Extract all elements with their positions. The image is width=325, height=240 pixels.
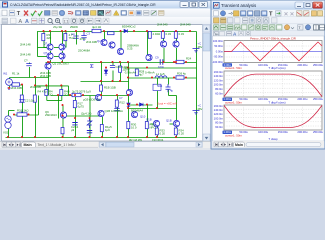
wire right rail — [196, 32, 198, 138]
toolbar row 2 — [0, 17, 211, 25]
svg-text:100.00m: 100.00m — [213, 39, 223, 43]
wire rail C — [129, 77, 197, 79]
wire source VF1 stem — [9, 78, 11, 80]
wire R10 stubs — [46, 86, 48, 90]
plot3 valley waveform — [224, 105, 322, 127]
svg-text:R12: R12 — [120, 101, 126, 105]
svg-text:Transient analysis: Transient analysis — [221, 3, 257, 8]
svg-text:Uout = +0C mV: Uout = +0C mV — [157, 101, 177, 105]
transistor Q8 — [117, 48, 123, 54]
resistor R23 — [119, 66, 122, 72]
wire branch x150 — [150, 32, 152, 34]
capacitor C10 — [166, 84, 171, 92]
resistor R17 — [73, 101, 76, 108]
wire pot row — [15, 114, 39, 116]
capacitor C3 — [81, 31, 86, 41]
transistor Q13 — [60, 112, 66, 118]
svg-text:25ΩW: 25ΩW — [70, 25, 78, 29]
svg-text:cursor1: 50m: cursor1: 50m — [225, 134, 242, 138]
potentiometer P1 — [17, 113, 27, 116]
resistor R11 — [60, 90, 63, 96]
trans window buttons — [295, 2, 304, 8]
svg-text:2N4.04B: 2N4.04B — [30, 85, 41, 89]
svg-text:0.33: 0.33 — [179, 32, 185, 36]
svg-text:+C: +C — [198, 42, 202, 46]
resistor R10 — [45, 90, 48, 96]
wire VG1 column — [8, 111, 10, 117]
svg-text:60.0m: 60.0m — [215, 125, 223, 129]
resistor R34 — [174, 128, 177, 135]
svg-text:R26 4μ: R26 4μ — [177, 72, 186, 76]
resistor R9 horizontal — [72, 93, 81, 96]
svg-text:200.00u: 200.00u — [297, 130, 308, 134]
svg-text:BD949Cx2: BD949Cx2 — [122, 25, 136, 29]
svg-text:Petrov_IR4D67-03kHz_triangle.C: Petrov_IR4D67-03kHz_triangle.CIR — [250, 36, 296, 40]
svg-text:0.33: 0.33 — [166, 32, 172, 36]
svg-text:2N4.04B: 2N4.04B — [40, 74, 51, 78]
battery +C 28V — [193, 111, 200, 115]
toolbar row 1 — [0, 9, 211, 17]
trans title bar — [212, 1, 325, 10]
svg-text:2N4.940: 2N4.940 — [180, 23, 191, 27]
plot1 frame — [224, 41, 322, 63]
wire input row — [10, 77, 49, 79]
svg-text:C7: C7 — [119, 96, 123, 100]
svg-text:L1 1μ5: L1 1μ5 — [156, 72, 165, 76]
svg-text:C:\ACL2\DATA\Petrov\Petrov\Rad: C:\ACL2\DATA\Petrov\Petrov\Radiolubitel\… — [10, 3, 156, 7]
wire branch x147 — [147, 32, 149, 55]
value labels green — [3, 23, 203, 143]
wire rail B — [125, 67, 197, 69]
capacitor C11 — [110, 65, 115, 67]
capacitor C2 — [19, 100, 24, 102]
svg-text:Q1B 1206.69A: Q1B 1206.69A — [105, 109, 123, 113]
svg-text:μΩ9 (2Ω6.1μ): μΩ9 (2Ω6.1μ) — [83, 98, 100, 102]
potentiometer P1 wiper arrow — [21, 110, 23, 113]
wire col x176 lower — [176, 109, 178, 138]
designator labels blue — [3, 32, 201, 123]
main tab bar — [0, 141, 211, 148]
plot3 frame — [224, 105, 322, 130]
svg-text:IN1: IN1 — [3, 72, 8, 76]
zener D5 — [87, 118, 92, 128]
resistor R30 — [127, 122, 130, 129]
svg-text:50.00m: 50.00m — [214, 44, 223, 48]
resistor R12 — [115, 100, 118, 107]
svg-text:C4: C4 — [71, 32, 75, 36]
svg-text:A: A — [25, 19, 29, 25]
resistor R15 — [100, 125, 103, 132]
wire col x37 lower — [37, 48, 39, 57]
transistor Q18 — [95, 94, 101, 100]
wire col x117 — [117, 96, 119, 138]
battery +C 48V — [193, 49, 200, 53]
wire rail D — [51, 95, 129, 97]
svg-text:60.0m: 60.0m — [215, 91, 223, 95]
svg-text:T: T — [17, 11, 21, 17]
trans toolbar row1 — [214, 11, 323, 18]
svg-text:4μ7: 4μ7 — [139, 73, 144, 77]
svg-text:A: A — [19, 19, 23, 25]
wire 2x2 transistor col2 — [62, 32, 64, 45]
transistor Q3 — [59, 44, 65, 50]
transistor Q4 — [47, 53, 53, 59]
resistor R14 on top rail — [92, 29, 101, 32]
transistor Q5 — [59, 53, 65, 59]
plot1 zero cursor line — [224, 51, 322, 53]
wire top rail — [38, 32, 197, 48]
trans toolbar row3 — [214, 25, 325, 30]
wire col x128 — [128, 63, 130, 138]
svg-text:R4 47μ: R4 47μ — [38, 90, 47, 94]
diode D2 vertical — [127, 103, 130, 107]
diode D4 on top rail — [124, 29, 128, 32]
transistor Q10 output — [173, 41, 179, 47]
plot3 y labels — [214, 104, 224, 129]
junction dots top rail — [43, 30, 192, 32]
wire out row y108 — [129, 108, 177, 110]
svg-text:0.46mA: 0.46mA — [145, 71, 155, 75]
main title bar — [0, 0, 211, 9]
svg-text:Q1B: Q1B — [166, 119, 172, 123]
wire input row2 — [10, 84, 23, 86]
svg-text:1:1: 1:1 — [64, 19, 69, 23]
svg-text:75.Ω: 75.Ω — [69, 36, 75, 40]
svg-text:Q1 2SC3503: Q1 2SC3503 — [53, 62, 70, 66]
transistor Q12 — [126, 89, 132, 95]
wire Q7 emitter — [176, 48, 178, 63]
svg-text:220: 220 — [47, 36, 52, 40]
wire branch x43.5 — [44, 32, 47, 48]
svg-text:+C: +C — [198, 104, 202, 108]
wire col x157 — [157, 121, 159, 138]
plot2 frame — [224, 71, 322, 97]
svg-text:200.00u: 200.00u — [297, 97, 308, 101]
schematic canvas — [2, 25, 203, 142]
wire feedback row y85 — [36, 85, 69, 87]
svg-text:Qx2: Qx2 — [97, 39, 103, 43]
wire x101 stubs — [101, 63, 103, 86]
svg-text:4μ: 4μ — [170, 89, 174, 93]
plot2 arch waveform — [224, 74, 322, 97]
diode D3 horizontal — [140, 103, 144, 106]
wire rail F — [63, 115, 103, 117]
svg-text:R2Ω 1kΩ: R2Ω 1kΩ — [17, 109, 29, 113]
svg-text:0.20: 0.20 — [179, 132, 185, 136]
wire x112.5 cap branch — [112, 63, 114, 66]
plot2 y labels — [214, 70, 224, 96]
svg-text:T dswp: T dswp — [268, 137, 278, 141]
inductor L1 — [155, 76, 167, 78]
transistor Q1 — [45, 63, 51, 69]
wire base row upper — [38, 47, 48, 49]
trans tab bar — [213, 141, 325, 148]
svg-text:R1B 1ΩB: R1B 1ΩB — [104, 86, 116, 90]
voltage source VF1 — [6, 79, 13, 86]
svg-text:100.00u: 100.00u — [258, 63, 269, 67]
capacitor C4 — [73, 36, 78, 38]
resistor R18 — [100, 85, 103, 91]
resistor R21 — [174, 32, 177, 39]
svg-text:(2μ4.14): (2μ4.14) — [81, 112, 92, 116]
wire 2x2 transistor col1 — [50, 32, 52, 45]
wire pot to rail D — [38, 96, 40, 116]
plot1 y labels — [212, 39, 223, 64]
wire x120 resistor branch — [120, 63, 122, 67]
transistor Q2 — [47, 44, 53, 50]
wire col x58 — [58, 96, 60, 119]
svg-text:R1 1k: R1 1k — [12, 72, 20, 76]
svg-text:2SO468A: 2SO468A — [78, 49, 90, 53]
svg-text:2N4.148: 2N4.148 — [20, 43, 31, 47]
wire col x147 lower — [147, 105, 149, 138]
svg-text:2Ω: 2Ω — [49, 93, 53, 97]
svg-text:Q1B: Q1B — [146, 118, 152, 122]
plot3 x labels — [223, 130, 324, 134]
wire col x35 — [35, 78, 37, 138]
transistor Q9 output — [160, 41, 166, 47]
svg-text:2N4.04B: 2N4.04B — [11, 86, 22, 90]
resistor R26 horizontal — [176, 76, 184, 79]
wire branch x76 cap — [76, 32, 78, 45]
transistor Q17 — [173, 120, 179, 126]
transistor Q16 — [153, 120, 159, 126]
svg-text:2Ω: 2Ω — [64, 93, 68, 97]
wire branch x120.5 — [120, 32, 122, 49]
wire diode row — [129, 104, 153, 106]
wire branch x163 resistor to Q6 — [163, 32, 165, 42]
svg-text:NPO: NPO — [150, 126, 157, 130]
capacitor C5 electrolytic — [26, 64, 31, 66]
svg-text:100.00u: 100.00u — [258, 97, 269, 101]
svg-text:2N4.940: 2N4.940 — [157, 23, 168, 27]
wire mid rail A — [46, 62, 197, 64]
plot1 triangle waveform — [224, 42, 322, 61]
wire col x22 — [22, 85, 24, 138]
resistor R31 — [145, 122, 148, 129]
diode D1 — [104, 68, 107, 77]
status strip — [0, 148, 211, 150]
svg-text:T dbp/f u(ms): T dbp/f u(ms) — [268, 100, 285, 104]
svg-text:Text_1 \ Module_1 \ Info /: Text_1 \ Module_1 \ Info / — [38, 143, 76, 147]
trans toolbar row4 — [214, 32, 251, 37]
svg-text:BD946A4: BD946A4 — [131, 109, 143, 113]
wire col x63 lower — [62, 106, 64, 138]
transistor Q14 — [98, 110, 104, 116]
svg-text:2N4.04B: 2N4.04B — [86, 40, 97, 44]
plot client area — [213, 36, 325, 141]
resistor R1 input — [12, 83, 20, 86]
svg-text:R24: R24 — [186, 57, 192, 61]
wire branch x104 — [104, 32, 106, 40]
wire branch x65.5 — [65, 32, 67, 48]
svg-text:T dbp/f u(ms): T dbp/f u(ms) — [268, 66, 285, 70]
svg-text:cursor1: 50m: cursor1: 50m — [225, 66, 242, 70]
transistor Q7 — [109, 42, 115, 48]
main window buttons — [180, 2, 208, 8]
svg-text:5Ω4: 5Ω4 — [157, 84, 163, 88]
wire base row lower — [38, 56, 48, 58]
svg-text:250.00u: 250.00u — [313, 63, 324, 67]
capacitor C8 electrolytic — [87, 131, 92, 133]
capacitor C6 — [72, 123, 77, 125]
svg-text:x5μ 3Ω: x5μ 3Ω — [53, 25, 62, 29]
svg-text:10.0: 10.0 — [131, 126, 137, 130]
resistor R16 below rail — [108, 32, 115, 35]
svg-text:μ9: μ9 — [71, 128, 75, 132]
junction dots mid — [8, 61, 187, 119]
transistor Q15 — [131, 111, 137, 117]
svg-text:100.00u: 100.00u — [258, 130, 269, 134]
capacitor C9 — [160, 59, 163, 64]
svg-text:-50.00m: -50.00m — [213, 55, 223, 59]
wire col x89.5 — [89, 96, 91, 138]
wire col x75 — [75, 96, 77, 138]
svg-text:-3.96mA4: -3.96mA4 — [124, 71, 137, 75]
svg-text:Q?: Q? — [44, 42, 48, 46]
svg-text:250.00u: 250.00u — [313, 97, 324, 101]
svg-text:48V: 48V — [198, 45, 203, 49]
wire col x102 — [102, 117, 104, 138]
svg-text:Main: Main — [235, 143, 243, 147]
junction dots bottom rail — [7, 136, 177, 138]
wire Q11 Q12 base row — [151, 123, 154, 125]
capacitor C7 — [114, 109, 119, 111]
svg-text:-100.00m: -100.00m — [212, 60, 223, 64]
svg-text:0.00m: 0.00m — [216, 49, 223, 53]
svg-text:Main: Main — [24, 143, 32, 147]
svg-text:Q?: Q? — [44, 51, 48, 55]
svg-text:4.94Ω: 4.94Ω — [153, 32, 161, 36]
meter box M1 — [153, 84, 161, 90]
svg-text:2μ75 2076 1μ9: 2μ75 2076 1μ9 — [72, 89, 91, 93]
wire Q1 column — [48, 62, 50, 65]
resistor R28 — [135, 69, 138, 76]
svg-text:150.00u: 150.00u — [278, 130, 289, 134]
resistor R24 horizontal — [176, 60, 184, 63]
resistor R19 — [148, 32, 151, 39]
resistor R5 — [64, 34, 67, 41]
svg-text:!: ! — [116, 11, 117, 16]
ground VF1 — [7, 88, 11, 90]
svg-text:C2 1Ωn: C2 1Ωn — [25, 99, 35, 103]
svg-text:C?: C? — [24, 59, 28, 63]
plot1 x labels — [223, 63, 324, 67]
wire row y100 — [47, 100, 62, 102]
svg-text:28V: 28V — [198, 107, 203, 111]
vertical scrollbar — [203, 25, 211, 142]
diode D6 — [90, 65, 93, 67]
svg-text:VG1: VG1 — [3, 131, 9, 135]
svg-text:T: T — [269, 12, 273, 18]
svg-text:200.00u: 200.00u — [297, 63, 308, 67]
svg-text:100n: 100n — [158, 65, 165, 69]
resistor R8 — [33, 95, 36, 102]
wire meter stubs — [158, 78, 177, 109]
resistor R20 — [161, 32, 164, 39]
wire cap C5 column — [29, 63, 31, 65]
transistor Q11 driver — [146, 54, 152, 60]
resistor R3 — [42, 34, 45, 41]
wire emitter joins — [50, 51, 52, 53]
resistor R13 — [61, 128, 64, 134]
svg-text:C3: C3 — [87, 32, 91, 36]
wire branch x176 resistor to Q7 — [176, 32, 178, 42]
wire rail y81 — [81, 81, 129, 83]
svg-text:0.25: 0.25 — [127, 47, 133, 51]
wire bottom rail — [6, 137, 197, 139]
voltage source VG1 — [5, 116, 11, 129]
svg-text:6μ75: 6μ75 — [78, 105, 85, 109]
svg-text:250.00u: 250.00u — [313, 130, 324, 134]
resistor R7 — [20, 95, 23, 102]
wire Q6 emitter — [163, 48, 165, 63]
svg-text:C9: C9 — [155, 56, 159, 60]
svg-text:2SD1913: 2SD1913 — [45, 113, 57, 117]
main h scrollbar — [99, 142, 203, 148]
transistor Q6 — [101, 39, 107, 45]
svg-text:0.20: 0.20 — [160, 132, 166, 136]
svg-text:cursor1: 50m: cursor1: 50m — [225, 100, 242, 104]
svg-text:2N4.148: 2N4.148 — [20, 53, 31, 57]
resistor R33 — [155, 128, 158, 135]
svg-text:Q10: Q10 — [140, 115, 146, 119]
svg-text:4μ4 1Ω: 4μ4 1Ω — [92, 25, 101, 29]
svg-text:1μ9: 1μ9 — [105, 128, 110, 132]
plot2 x labels — [223, 97, 324, 101]
trans toolbar row2 — [214, 18, 278, 23]
